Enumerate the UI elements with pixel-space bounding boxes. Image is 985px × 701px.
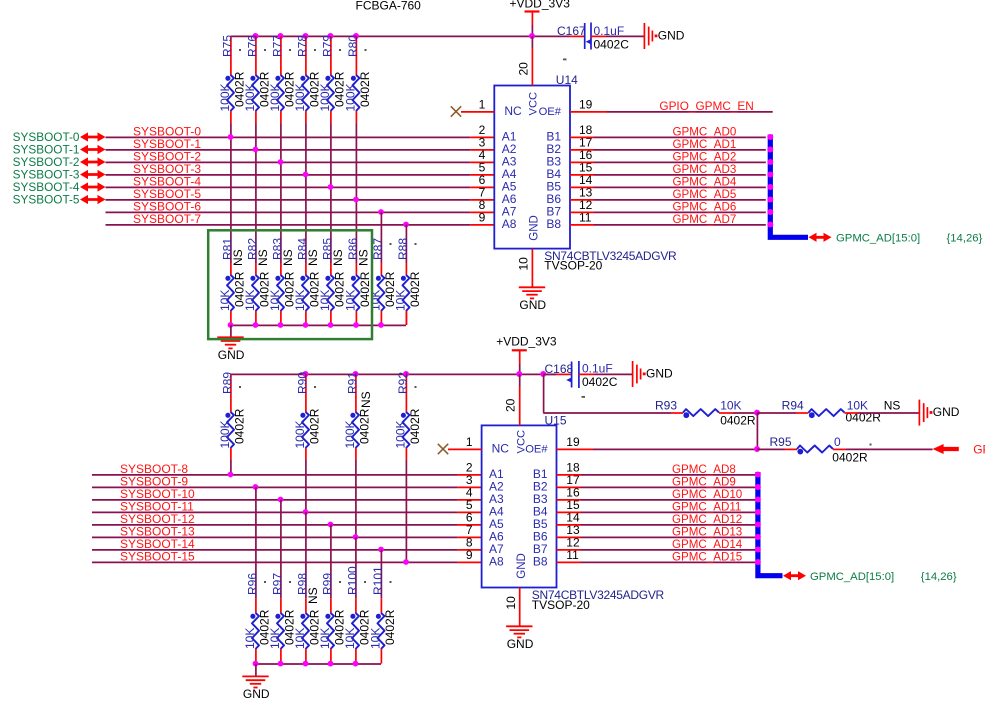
- svg-text:NC: NC: [504, 104, 522, 118]
- resistor R86 10K 0402R pull-down NS: [344, 238, 373, 325]
- svg-text:100K: 100K: [318, 83, 332, 111]
- U15 pin 10 GND stub: [504, 588, 520, 627]
- port SYSBOOT-0 bidirectional: [13, 130, 106, 144]
- IC U15 SN74CBTLV3245ADGVR buffer: [482, 413, 665, 612]
- wire U15 OE# (pin 19) to junction: [557, 448, 755, 450]
- svg-text:0402R: 0402R: [233, 408, 247, 444]
- wire R90 down to net row: [305, 460, 307, 512]
- svg-text:GPMC_AD[15:0]: GPMC_AD[15:0]: [810, 571, 894, 583]
- wire +VDD_3V3 rail (bottom): [231, 373, 557, 375]
- svg-text:0402R: 0402R: [408, 408, 422, 444]
- wire R80 to pull-down column: [355, 124, 357, 264]
- svg-text:NS: NS: [359, 391, 373, 408]
- resistor R94 10K 0402R NS: [782, 398, 901, 424]
- svg-text:R88: R88: [396, 238, 410, 260]
- wire junction to R94: [757, 412, 809, 414]
- svg-text:+VDD_3V3: +VDD_3V3: [496, 334, 557, 348]
- svg-text:A8: A8: [502, 217, 517, 231]
- ground GND (right of C167): [644, 23, 684, 49]
- svg-text:U15: U15: [545, 413, 567, 427]
- svg-text:R90: R90: [296, 372, 310, 394]
- junction SYSBOOT-3 / resistor column: [303, 172, 309, 178]
- svg-text:R97: R97: [271, 573, 285, 595]
- port SYSBOOT-5 bidirectional: [13, 193, 106, 207]
- svg-text:NS: NS: [357, 249, 371, 266]
- svg-text:10K: 10K: [369, 290, 383, 311]
- svg-text:GPMC_AD7: GPMC_AD7: [673, 213, 737, 226]
- wire R89 down to net row: [230, 460, 232, 475]
- svg-text:10K: 10K: [369, 628, 383, 649]
- bus GPMC_AD[15:0] (top): [770, 135, 808, 238]
- port SYSBOOT-4 bidirectional: [13, 180, 106, 194]
- svg-text:R75: R75: [221, 35, 235, 57]
- svg-text:10K: 10K: [268, 628, 282, 649]
- resistor R75 100K 0402R pull-up: [218, 35, 247, 124]
- junction SYSBOOT-7 / resistor column: [403, 222, 409, 228]
- svg-text:TVSOP-20: TVSOP-20: [532, 598, 590, 612]
- svg-text:100K: 100K: [218, 420, 232, 448]
- svg-text:GPMC_AD2: GPMC_AD2: [673, 151, 737, 164]
- svg-text:100K: 100K: [243, 83, 257, 111]
- svg-text:NC: NC: [492, 441, 510, 455]
- wire pull-down common rail (top): [231, 324, 407, 326]
- resistor R89 100K 0402R pull-up: [218, 372, 247, 460]
- svg-text:0402C: 0402C: [594, 37, 630, 51]
- svg-text:10K: 10K: [243, 628, 257, 649]
- svg-text:R77: R77: [271, 35, 285, 57]
- svg-text:20: 20: [516, 62, 530, 76]
- svg-text:GND: GND: [519, 298, 546, 312]
- ground GND (right of R94): [919, 400, 959, 426]
- wire SYSBOOT-3 (net label): [106, 162, 495, 176]
- IC U14 SN74CBTLV3245ADGVR buffer: [494, 73, 677, 273]
- wire R88 corner: [405, 311, 407, 325]
- wire R95 to port: [833, 448, 933, 450]
- svg-text:GND: GND: [529, 215, 541, 241]
- svg-text:R80: R80: [346, 35, 360, 57]
- wire GPMC_AD3 (U14 pin 15): [570, 163, 766, 176]
- wire SYSBOOT-13 (net label): [92, 525, 482, 539]
- svg-text:R92: R92: [396, 372, 410, 394]
- svg-text:GPMC_AD4: GPMC_AD4: [673, 176, 737, 189]
- svg-text:GPIO: GPIO: [973, 443, 985, 457]
- svg-text:R101: R101: [371, 566, 385, 595]
- no-connect X on U15 pin 1: [438, 444, 448, 454]
- svg-text:GPMC_AD15: GPMC_AD15: [672, 551, 742, 564]
- wire SYSBOOT-9 (net label): [92, 475, 482, 489]
- resistor R76 100K 0402R pull-up: [243, 35, 272, 124]
- svg-text:R95: R95: [769, 435, 791, 449]
- svg-text:9: 9: [479, 210, 486, 224]
- ground GND (below R81 rail): [217, 325, 245, 362]
- junction SYSBOOT-1 / resistor column: [253, 147, 259, 153]
- resistor R85 10K 0402R pull-down NS: [318, 238, 347, 325]
- wire C167 to GND: [591, 35, 645, 37]
- wire SYSBOOT-10 (net label): [92, 487, 482, 501]
- resistor R83 10K 0402R pull-down NS: [268, 238, 297, 325]
- svg-text:GND: GND: [507, 637, 534, 651]
- ground GND (U15 pin 10): [506, 626, 534, 651]
- svg-text:10K: 10K: [243, 290, 257, 311]
- resistor R100 10K 0402R pull-down: [343, 537, 372, 664]
- resistor R95 0 0402R: [769, 435, 871, 465]
- junction OE#/R95 node: [754, 446, 760, 452]
- junction SYSBOOT-2 / resistor column: [278, 159, 284, 165]
- junction R93/R94 node: [754, 410, 760, 416]
- bus junction dots (bottom): [755, 472, 761, 566]
- svg-text:GPIO_GPMC_EN: GPIO_GPMC_EN: [659, 99, 753, 113]
- port GPMC_AD[15:0] (bottom): [783, 571, 957, 583]
- svg-text:10K: 10K: [344, 290, 358, 311]
- svg-text:100K: 100K: [293, 83, 307, 111]
- port GPIO_GPMC_EN (right edge): [933, 443, 985, 457]
- svg-text:R89: R89: [221, 372, 235, 394]
- svg-text:100K: 100K: [293, 420, 307, 448]
- U15 pin numbers: [466, 435, 580, 562]
- wire GPMC_AD14 (U15 pin 12): [557, 538, 756, 551]
- svg-text:SYSBOOT-7: SYSBOOT-7: [133, 212, 201, 226]
- wire R75 to pull-down column: [230, 124, 232, 264]
- svg-text:GPMC_AD6: GPMC_AD6: [673, 201, 737, 214]
- green highlight box around R81-R86: [208, 230, 372, 339]
- svg-text:9: 9: [466, 548, 473, 562]
- wire GPMC_AD7 (U14 pin 11): [570, 213, 766, 226]
- svg-text:GPMC_AD5: GPMC_AD5: [673, 188, 737, 201]
- svg-text:GND: GND: [933, 405, 960, 419]
- svg-text:10K: 10K: [268, 290, 282, 311]
- wire C168 to GND: [579, 373, 633, 375]
- svg-text:100K: 100K: [343, 420, 357, 448]
- U14 pin numbers: [479, 97, 593, 224]
- wire junction to R95: [757, 448, 797, 450]
- wire junction down to OE# row: [756, 413, 758, 449]
- svg-text:GPMC_AD1: GPMC_AD1: [673, 138, 737, 151]
- svg-text:19: 19: [579, 97, 593, 111]
- wire GPMC_AD6 (U14 pin 12): [570, 201, 766, 214]
- wire SYSBOOT-5 (net label): [106, 187, 495, 201]
- wire SYSBOOT-2 (net label): [106, 150, 495, 164]
- wire U15 pin1: [448, 448, 482, 450]
- svg-text:GPMC_AD3: GPMC_AD3: [673, 163, 737, 176]
- wire SYSBOOT-12 (net label): [92, 512, 482, 526]
- svg-text:B8: B8: [533, 554, 548, 568]
- wire GPMC_AD11 (U15 pin 15): [557, 501, 756, 514]
- ground GND (below R96 rail): [242, 664, 270, 701]
- wire SYSBOOT-8 (net label): [92, 462, 482, 476]
- svg-text:0402R: 0402R: [832, 451, 868, 465]
- power +VDD_3V3 (top): [510, 0, 571, 36]
- svg-text:100K: 100K: [394, 420, 408, 448]
- wire GPMC_AD15 (U15 pin 11): [557, 551, 756, 564]
- capacitor C167 0.1uF 0402C: [557, 23, 629, 61]
- svg-text:+VDD_3V3: +VDD_3V3: [510, 0, 571, 11]
- ground GND (U14 pin 10): [519, 287, 547, 312]
- wire R77 to pull-down column: [280, 124, 282, 264]
- wire GPMC_AD1 (U14 pin 17): [570, 138, 766, 151]
- wire R91 down to net row: [355, 460, 357, 537]
- svg-text:C168: C168: [545, 362, 574, 376]
- U14 pin 20 VCC stub: [516, 36, 532, 86]
- resistor R91 100K 0402R pull-up NS: [343, 372, 373, 460]
- resistor R99 10K 0402R pull-down: [318, 525, 347, 664]
- svg-text:NS: NS: [306, 249, 320, 266]
- junction SYSBOOT-4 / resistor column: [328, 184, 334, 190]
- svg-text:NS: NS: [306, 587, 320, 604]
- svg-text:10K: 10K: [343, 628, 357, 649]
- port SYSBOOT-2 bidirectional: [13, 155, 106, 169]
- svg-text:100K: 100K: [268, 83, 282, 111]
- wire SYSBOOT-4 (net label): [106, 175, 495, 189]
- resistor R98 10K 0402R pull-down NS: [293, 512, 322, 664]
- resistor R81 10K 0402R pull-down NS: [218, 238, 247, 325]
- junction SYSBOOT-6 / resistor column: [378, 209, 384, 215]
- bus junction dots (top): [767, 134, 773, 228]
- svg-text:100K: 100K: [344, 83, 358, 111]
- wire SYSBOOT-7 (net label): [106, 212, 495, 226]
- svg-text:GPMC_AD11: GPMC_AD11: [672, 501, 741, 514]
- svg-text:GPMC_AD[15:0]: GPMC_AD[15:0]: [836, 232, 920, 244]
- svg-text:VCC: VCC: [515, 430, 527, 454]
- svg-text:10K: 10K: [318, 628, 332, 649]
- junction SYSBOOT-5 / resistor column: [353, 197, 359, 203]
- wire SYSBOOT-11 (net label): [92, 500, 482, 514]
- wire R94 to GND: [845, 412, 920, 414]
- svg-text:0402R: 0402R: [358, 71, 372, 107]
- wire GPMC_AD12 (U15 pin 14): [557, 513, 756, 526]
- svg-text:C167: C167: [557, 24, 586, 38]
- wire GPMC_AD0 (U14 pin 18): [570, 126, 766, 139]
- svg-text:GND: GND: [218, 348, 245, 362]
- svg-text:100K: 100K: [218, 83, 232, 111]
- junction dots SYSBOOT-8..15 columns: [228, 472, 409, 565]
- wire +VDD_3V3 rail (top): [231, 35, 570, 37]
- svg-text:10: 10: [504, 596, 518, 610]
- svg-text:R96: R96: [246, 573, 260, 595]
- svg-text:R91: R91: [346, 372, 360, 394]
- resistor R84 10K 0402R pull-down NS: [293, 238, 322, 325]
- svg-text:OE#: OE#: [539, 106, 562, 118]
- svg-text:10K: 10K: [293, 290, 307, 311]
- resistor R87 10K 0402R pull-down: [369, 212, 398, 325]
- svg-text:10K: 10K: [218, 290, 232, 311]
- resistor R92 100K 0402R pull-up: [394, 372, 423, 460]
- resistor R88 10K 0402R pull-down: [394, 225, 423, 326]
- svg-text:GPMC_AD12: GPMC_AD12: [672, 513, 742, 526]
- svg-text:{14,26}: {14,26}: [947, 232, 983, 244]
- resistor R96 10K 0402R pull-down: [243, 487, 272, 664]
- resistor R90 100K 0402R pull-up: [293, 372, 322, 460]
- svg-text:TVSOP-20: TVSOP-20: [544, 259, 602, 273]
- svg-text:19: 19: [566, 435, 580, 449]
- port SYSBOOT-3 bidirectional: [13, 168, 106, 182]
- resistor R79 100K 0402R pull-up: [318, 35, 347, 124]
- svg-text:NS: NS: [884, 398, 901, 412]
- U15 pin 20 VCC stub: [504, 374, 520, 425]
- wire pull-down common rail (bottom): [256, 663, 382, 665]
- svg-text:GND: GND: [516, 553, 528, 579]
- svg-text:NS: NS: [281, 249, 295, 266]
- port SYSBOOT-1 bidirectional: [13, 143, 106, 157]
- port GPMC_AD[15:0] (top): [809, 232, 983, 244]
- svg-text:R99: R99: [321, 573, 335, 595]
- wire U14 pin1: [461, 111, 494, 113]
- wire VDD to C168: [543, 373, 571, 375]
- resistor R97 10K 0402R pull-down: [268, 500, 297, 664]
- svg-text:{14,26}: {14,26}: [921, 571, 957, 583]
- svg-text:R94: R94: [782, 398, 804, 412]
- svg-text:1: 1: [479, 97, 486, 111]
- bus GPMC_AD[15:0] (bottom): [758, 472, 783, 576]
- svg-text:1: 1: [466, 435, 473, 449]
- wire SYSBOOT-0 (net label): [106, 125, 495, 139]
- svg-text:U14: U14: [556, 73, 578, 87]
- svg-text:0402R: 0402R: [408, 271, 422, 307]
- svg-text:10K: 10K: [293, 628, 307, 649]
- svg-text:20: 20: [504, 398, 518, 412]
- wire VDD tap to R93: [543, 374, 683, 413]
- wire R79 to pull-down column: [330, 124, 332, 264]
- resistor R78 100K 0402R pull-up: [293, 35, 322, 124]
- junction dots on top rail: [253, 33, 536, 39]
- wire R93 to junction: [719, 412, 757, 414]
- wire R78 to pull-down column: [305, 124, 307, 264]
- svg-text:FCBGA-760: FCBGA-760: [356, 0, 422, 13]
- power +VDD_3V3 (bottom): [496, 334, 557, 374]
- svg-text:GPMC_AD0: GPMC_AD0: [673, 126, 737, 139]
- svg-text:SYSBOOT-5: SYSBOOT-5: [13, 193, 80, 207]
- junction SYSBOOT-0 / resistor column: [228, 134, 234, 140]
- resistor R101 10K 0402R pull-down: [369, 550, 398, 664]
- svg-text:R78: R78: [296, 35, 310, 57]
- no-connect X on U14 pin 1: [451, 106, 461, 116]
- svg-text:10: 10: [517, 257, 531, 271]
- svg-text:VCC: VCC: [527, 92, 539, 116]
- wire GPIO_GPMC_EN (U14 pin 19): [570, 99, 773, 113]
- svg-text:GPMC_AD13: GPMC_AD13: [672, 526, 742, 539]
- wire SYSBOOT-14 (net label): [92, 537, 482, 551]
- svg-text:0402R: 0402R: [308, 408, 322, 444]
- capacitor C168 0.1uF 0402C: [545, 361, 618, 398]
- svg-text:GPMC_AD9: GPMC_AD9: [672, 476, 736, 489]
- wire R76 to pull-down column: [255, 124, 257, 264]
- resistor R80 100K 0402R pull-up: [344, 35, 373, 124]
- resistor R77 100K 0402R pull-up: [268, 35, 297, 124]
- wire GPMC_AD2 (U14 pin 16): [570, 151, 766, 164]
- wire VDD to C167: [569, 35, 584, 37]
- svg-text:GND: GND: [646, 367, 673, 381]
- svg-text:R76: R76: [246, 35, 260, 57]
- svg-text:GND: GND: [243, 687, 270, 701]
- svg-text:SYSBOOT-15: SYSBOOT-15: [120, 550, 195, 564]
- svg-text:NS: NS: [331, 249, 345, 266]
- wire SYSBOOT-15 (net label): [92, 550, 482, 564]
- wire R92 down to net row: [405, 460, 407, 562]
- svg-text:0402R: 0402R: [383, 609, 397, 645]
- junction dots pull-down rail (bottom): [253, 661, 359, 667]
- wire GPMC_AD9 (U15 pin 17): [557, 476, 756, 489]
- resistor R93 10K 0402R: [655, 398, 756, 427]
- svg-text:B8: B8: [546, 217, 561, 231]
- svg-text:10K: 10K: [720, 398, 741, 412]
- svg-text:OE#: OE#: [525, 443, 548, 455]
- wire GPMC_AD4 (U14 pin 14): [570, 176, 766, 189]
- svg-text:0402R: 0402R: [358, 408, 372, 444]
- resistor R82 10K 0402R pull-down NS: [243, 238, 272, 325]
- svg-text:R93: R93: [655, 398, 677, 412]
- junction dots pull-down rail (top): [228, 322, 384, 328]
- ground GND (right of C168): [633, 361, 673, 387]
- svg-text:10K: 10K: [318, 290, 332, 311]
- svg-text:GPMC_AD8: GPMC_AD8: [672, 463, 736, 476]
- wire SYSBOOT-1 (net label): [106, 137, 495, 151]
- svg-text:GND: GND: [658, 29, 685, 43]
- svg-text:NS: NS: [231, 249, 245, 266]
- U14 pin 10 GND stub: [517, 249, 533, 288]
- wire GPMC_AD10 (U15 pin 16): [557, 488, 756, 501]
- wire SYSBOOT-6 (net label): [106, 200, 495, 214]
- wire GPMC_AD8 (U15 pin 18): [557, 463, 756, 476]
- svg-text:0402C: 0402C: [582, 375, 618, 389]
- svg-text:R79: R79: [321, 35, 335, 57]
- svg-text:0.1uF: 0.1uF: [582, 362, 613, 376]
- svg-text:10K: 10K: [394, 290, 408, 311]
- svg-text:R100: R100: [346, 566, 360, 595]
- svg-text:GPMC_AD14: GPMC_AD14: [672, 538, 743, 551]
- svg-text:0: 0: [834, 435, 841, 449]
- junction dots on bottom rail: [303, 371, 547, 377]
- wire GPMC_AD13 (U15 pin 13): [557, 526, 756, 539]
- svg-text:NS: NS: [256, 249, 270, 266]
- svg-text:0402R: 0402R: [720, 413, 756, 427]
- svg-text:A8: A8: [489, 554, 504, 568]
- svg-text:GPMC_AD10: GPMC_AD10: [672, 488, 742, 501]
- wire GPMC_AD5 (U14 pin 13): [570, 188, 766, 201]
